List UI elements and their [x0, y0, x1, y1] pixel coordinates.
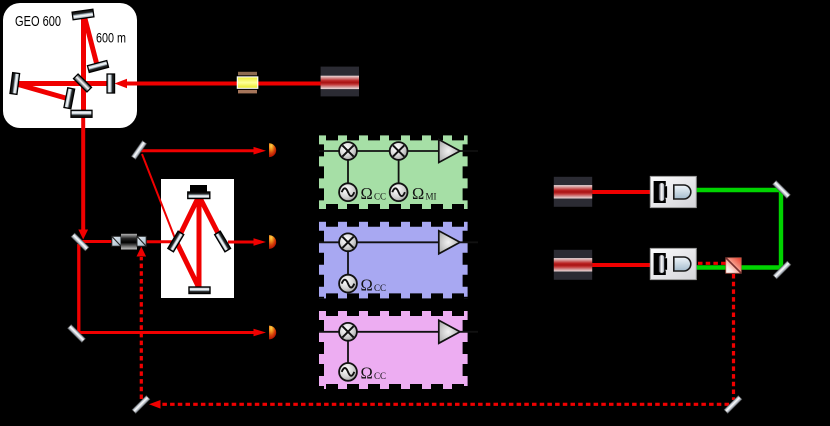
- beam GEO north arm: [81, 13, 86, 112]
- mirror MFW west fold: [64, 88, 75, 109]
- demodulation box CC (pink): [319, 311, 468, 389]
- arrowhead dashed left: [149, 400, 161, 409]
- beam isolator to OMC: [145, 240, 177, 243]
- arrowhead output down: [78, 230, 88, 240]
- OMC mirror left: [168, 231, 184, 251]
- Faraday isolator PBS left: [112, 236, 121, 246]
- arrowhead PD3: [254, 329, 267, 337]
- dashed beam vacuum injection up: [140, 257, 143, 399]
- steering mirror S4: [132, 396, 150, 414]
- wire mixer X3 to oscillator OSC3: [347, 251, 349, 275]
- amplifier A3: [439, 320, 460, 343]
- demodulation box CC (blue): [319, 222, 468, 299]
- mirror MU north end: [72, 9, 94, 19]
- beam laser to EOM: [258, 82, 321, 86]
- svg-text:CC: CC: [374, 192, 386, 202]
- beam GEO west fold: [13, 83, 69, 99]
- SHG device box: [650, 176, 696, 207]
- beam OMC diag top-right: [199, 196, 223, 242]
- dashed beam squeezer to cube: [698, 262, 726, 265]
- dashed beam bottom horizontal: [153, 403, 729, 406]
- beam OMC diag left-top: [177, 196, 200, 242]
- EOM crystal: [237, 77, 257, 88]
- svg-text:Ω: Ω: [361, 275, 373, 294]
- steering mirror S5: [724, 396, 742, 414]
- beam GEO north fold: [84, 15, 97, 65]
- blue box signal line: [319, 241, 478, 243]
- beam OMC vertical: [197, 196, 202, 288]
- OMC mirror right: [215, 231, 231, 251]
- beam GEO output down: [81, 112, 85, 235]
- mixer X4: [339, 323, 357, 341]
- beam OMC output: [228, 241, 255, 244]
- arrowhead PD1: [254, 147, 267, 155]
- Faraday rotator: [121, 234, 137, 250]
- amplifier A1: [439, 140, 460, 163]
- green box signal line: [319, 150, 478, 152]
- wire mixer X4 to oscillator OSC4: [347, 340, 349, 363]
- steering mirror S6: [773, 181, 791, 199]
- svg-text:CC: CC: [374, 283, 386, 293]
- Faraday isolator PBS right: [137, 236, 146, 246]
- svg-text:Ω: Ω: [361, 364, 373, 383]
- beamsplitter BS GEO: [73, 74, 91, 92]
- beam laser2 to SHG: [592, 190, 651, 194]
- photodetector PD1: [269, 143, 276, 157]
- arrowhead dashed up: [137, 247, 147, 257]
- beam splitter to second path down: [77, 244, 80, 333]
- mixer X1: [339, 142, 357, 160]
- svg-text:CC: CC: [374, 371, 386, 381]
- mixer X3: [339, 233, 357, 251]
- beam GEO west arm: [12, 81, 110, 86]
- beam reflected to detector PD1: [140, 149, 255, 152]
- arrowhead input: [115, 79, 128, 89]
- svg-text:Ω: Ω: [361, 184, 373, 203]
- OMC enclosure: [161, 179, 234, 298]
- svg-text:600 m: 600 m: [96, 31, 126, 46]
- dichroic cube: [726, 258, 741, 273]
- beam input to GEO: [126, 82, 237, 86]
- OMC piezo block: [190, 185, 207, 193]
- steering mirror S2: [68, 325, 86, 343]
- photodetector PD2: [269, 235, 276, 249]
- mixer X2: [390, 142, 408, 160]
- amplifier A2: [439, 231, 460, 254]
- mirror MFN north fold: [87, 61, 108, 73]
- oscillator OSC4: [339, 363, 357, 381]
- laser L1 main: [321, 67, 359, 97]
- svg-text:GEO 600: GEO 600: [15, 14, 61, 30]
- photodetector PD3: [269, 326, 276, 340]
- EOM top electrode: [238, 72, 257, 76]
- OMC mirror bottom: [189, 287, 210, 294]
- squeezer OPO device box: [650, 248, 696, 279]
- steering splitter S1: [71, 233, 89, 251]
- beam laser3 to squeezer: [592, 263, 651, 267]
- oscillator OSC3: [339, 275, 357, 293]
- laser L2 SHG pump: [554, 177, 592, 207]
- steering mirror S3: [132, 141, 147, 159]
- beam BS to isolator: [82, 240, 113, 243]
- oscillator OSC2: [390, 183, 408, 201]
- dashed beam cube down: [732, 274, 735, 400]
- wire mixer X1 to oscillator OSC1: [347, 160, 349, 184]
- pink box signal line: [319, 331, 478, 333]
- beam bottom to detector PD3: [77, 331, 255, 334]
- steering mirror S7: [773, 261, 791, 279]
- mirror MPR power recycling: [107, 74, 115, 93]
- EOM bottom electrode: [238, 90, 257, 94]
- mirror MSR signal recycling: [71, 110, 92, 117]
- green beam squeezer loop: [697, 190, 782, 268]
- arrowhead OMC output: [254, 238, 267, 246]
- laser L3 squeezer pump: [554, 250, 592, 280]
- beam OMC diag left-bottom: [177, 242, 200, 288]
- wire mixer X2 to oscillator OSC2: [398, 160, 400, 184]
- beam OMC reflected diagonal: [142, 154, 176, 241]
- svg-text:Ω: Ω: [412, 184, 424, 203]
- OMC mirror top: [188, 192, 210, 199]
- demodulation box CC+MI (green): [319, 135, 468, 209]
- svg-text:MI: MI: [426, 192, 437, 202]
- oscillator OSC1: [339, 183, 357, 201]
- GEO 600 enclosure: [3, 3, 137, 128]
- mirror MW west end: [10, 73, 20, 95]
